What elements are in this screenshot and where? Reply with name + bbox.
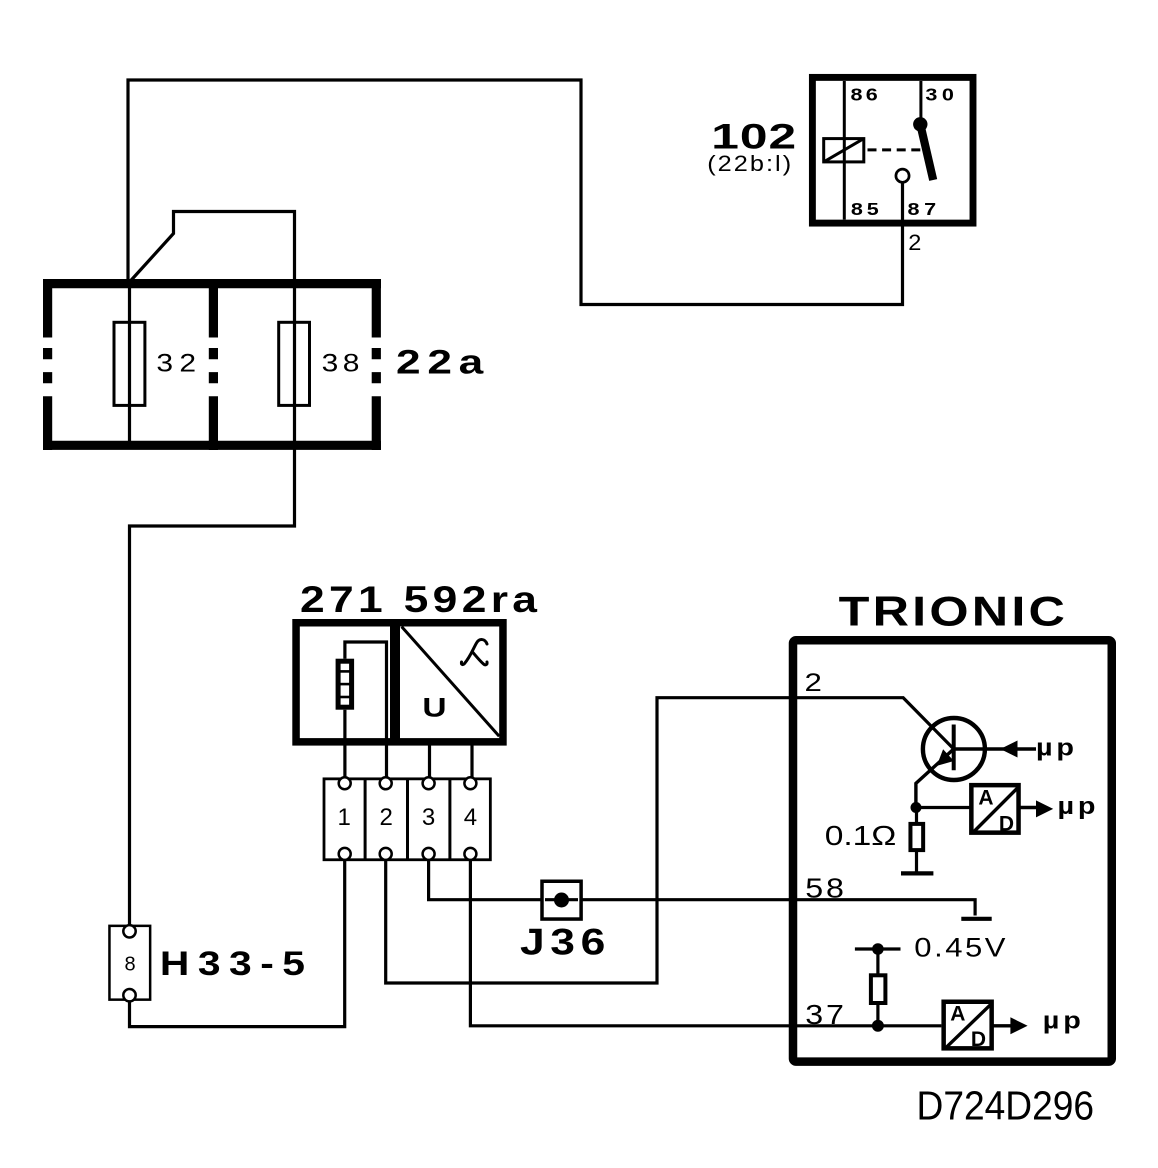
svg-text:A: A <box>950 1002 965 1025</box>
svg-text:3: 3 <box>422 804 435 831</box>
svg-text:8: 8 <box>124 954 135 976</box>
svg-text:U: U <box>422 693 446 723</box>
svg-text:2: 2 <box>908 230 921 255</box>
svg-text:271 592ra: 271 592ra <box>300 579 541 621</box>
svg-text:85: 85 <box>851 200 883 220</box>
svg-text:30: 30 <box>925 85 958 105</box>
svg-text:TRIONIC: TRIONIC <box>839 587 1069 634</box>
svg-text:0.45V: 0.45V <box>914 934 1008 964</box>
svg-text:4: 4 <box>464 804 477 831</box>
svg-text:µp: µp <box>1036 734 1078 761</box>
svg-text:2: 2 <box>380 804 393 831</box>
svg-text:H33-5: H33-5 <box>160 944 314 982</box>
svg-text:32: 32 <box>156 349 202 377</box>
svg-text:D: D <box>971 1028 986 1051</box>
svg-text:86: 86 <box>851 85 882 105</box>
svg-text:58: 58 <box>805 873 847 904</box>
svg-text:0.1Ω: 0.1Ω <box>825 820 897 852</box>
svg-text:87: 87 <box>908 200 941 220</box>
svg-text:2: 2 <box>805 668 822 696</box>
svg-text:22a: 22a <box>396 343 490 381</box>
svg-text:37: 37 <box>805 1000 847 1031</box>
svg-text:A: A <box>978 787 993 810</box>
svg-text:(22b:l): (22b:l) <box>707 152 793 176</box>
svg-text:D: D <box>999 813 1014 836</box>
svg-text:J36: J36 <box>520 921 611 963</box>
svg-text:µp: µp <box>1043 1007 1085 1034</box>
svg-text:102: 102 <box>711 117 797 156</box>
svg-text:1: 1 <box>338 804 351 831</box>
svg-text:38: 38 <box>322 349 364 377</box>
svg-text:µp: µp <box>1058 792 1100 819</box>
svg-text:D724D296: D724D296 <box>917 1084 1095 1129</box>
